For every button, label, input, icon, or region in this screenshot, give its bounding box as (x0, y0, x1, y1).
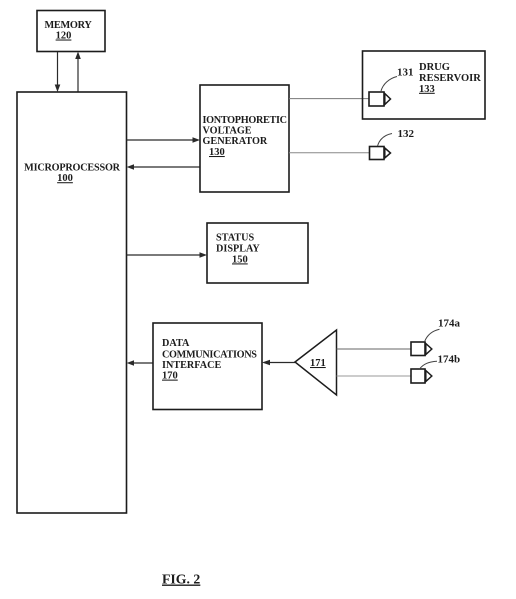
svg-text:150: 150 (232, 254, 248, 265)
svg-text:DRUG: DRUG (419, 62, 450, 73)
svg-text:MICROPROCESSOR: MICROPROCESSOR (24, 163, 121, 174)
svg-text:DISPLAY: DISPLAY (216, 243, 260, 254)
svg-text:171: 171 (310, 358, 326, 369)
wire amplifier to electrode 174a (337, 348, 412, 350)
svg-text:100: 100 (57, 173, 73, 184)
wire amplifier to electrode 174b (337, 375, 412, 377)
svg-text:170: 170 (162, 371, 178, 382)
electrode 174b (411, 369, 432, 383)
svg-text:131: 131 (397, 66, 414, 78)
wire microprocessor to voltage generator (right arrow) (127, 137, 201, 143)
data communications interface box 170 (153, 323, 262, 410)
label 132 leader (378, 134, 393, 147)
wire amplifier to data comm interface (left arrow) (262, 360, 295, 366)
microprocessor box 100 (17, 92, 127, 513)
label 131 leader (381, 77, 397, 92)
svg-text:133: 133 (419, 84, 435, 95)
wire data comm interface to microprocessor (left arrow) (127, 360, 154, 366)
svg-text:120: 120 (56, 31, 72, 42)
amplifier 171 (295, 330, 337, 395)
status display box 150 (207, 223, 308, 283)
wire generator to electrode 132 (289, 152, 370, 154)
svg-text:132: 132 (398, 128, 415, 140)
svg-text:174b: 174b (438, 354, 461, 366)
wire microprocessor to status display (right arrow) (127, 252, 208, 258)
iontophoretic voltage generator box 130 (200, 85, 289, 192)
wire voltage generator to microprocessor (left arrow) (127, 164, 201, 170)
svg-text:IONTOPHORETIC: IONTOPHORETIC (203, 115, 287, 126)
svg-text:130: 130 (209, 147, 225, 158)
wire generator to electrode 131 (289, 98, 369, 100)
label 174b leader (420, 361, 438, 369)
svg-text:FIG. 2: FIG. 2 (162, 572, 200, 587)
svg-text:174a: 174a (438, 318, 461, 330)
svg-text:INTERFACE: INTERFACE (162, 360, 221, 371)
svg-text:DATA: DATA (162, 338, 190, 349)
svg-text:RESERVOIR: RESERVOIR (419, 73, 481, 84)
electrode 132 (370, 147, 391, 160)
svg-text:GENERATOR: GENERATOR (203, 136, 268, 147)
svg-text:VOLTAGE: VOLTAGE (203, 126, 252, 137)
electrode 131 (369, 92, 391, 106)
wire microprocessor to memory (up arrow) (75, 52, 81, 93)
memory box 120 (37, 11, 105, 52)
svg-text:COMMUNICATIONS: COMMUNICATIONS (162, 349, 257, 360)
label 174a leader (425, 329, 440, 342)
wire memory to microprocessor (down arrow) (55, 52, 61, 92)
drug reservoir box 133 (363, 51, 486, 119)
svg-text:MEMORY: MEMORY (44, 20, 92, 31)
svg-text:STATUS: STATUS (216, 232, 254, 243)
electrode 174a (411, 342, 432, 356)
